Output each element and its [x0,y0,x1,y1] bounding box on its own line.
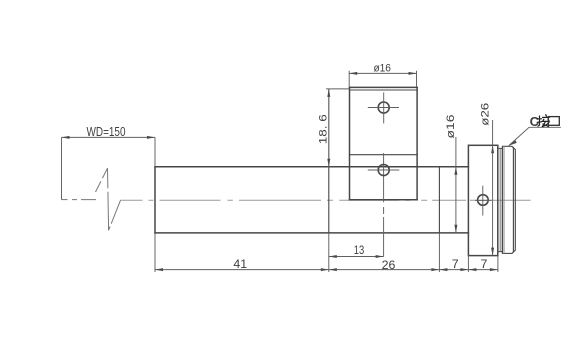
svg-text:18. 6: 18. 6 [317,114,329,144]
svg-text:13: 13 [354,243,365,257]
svg-text:7: 7 [452,257,459,271]
svg-text:WD=150: WD=150 [87,125,126,139]
svg-text:ø16: ø16 [373,63,391,75]
svg-text:ø26: ø26 [479,103,491,126]
svg-text:41: 41 [233,257,247,271]
svg-text:26: 26 [382,258,396,272]
svg-text:7: 7 [480,257,487,271]
svg-text:ø16: ø16 [445,115,457,139]
